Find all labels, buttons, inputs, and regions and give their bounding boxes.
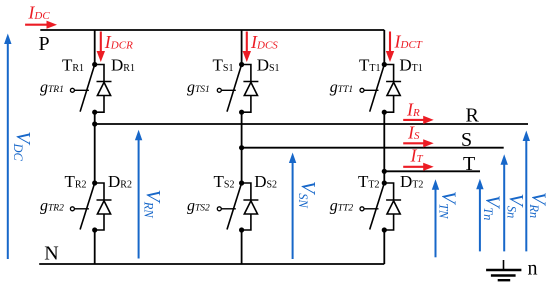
- wire leg R lower (pair to N rail): [94, 230, 96, 264]
- wire phase S rail: [242, 147, 504, 149]
- gate terminal gTS2 wire and circle: [217, 207, 236, 211]
- node dot bottom of pair T2: [382, 227, 387, 232]
- current arrow IT: [403, 163, 434, 171]
- switch TT1 blade: [370, 65, 385, 112]
- node dot bottom of pair T1: [382, 110, 387, 115]
- voltage arrow VSN: [289, 153, 296, 260]
- voltage arrow VTn: [476, 179, 483, 252]
- gate terminal gTT1 wire and circle: [360, 88, 379, 92]
- voltage arrow VRN: [135, 130, 142, 259]
- voltage arrow VRn: [523, 131, 530, 252]
- node dot bottom of pair S1: [239, 110, 244, 115]
- node dot bottom of pair S2: [239, 227, 244, 232]
- gate terminal gTR1 wire and circle: [70, 88, 89, 92]
- wire leg R middle (pair to pair via R rail): [94, 112, 96, 183]
- node dot bottom of pair R1: [92, 110, 97, 115]
- node dot top of pair S2: [239, 180, 244, 185]
- wire leg T upper (P rail to switch): [383, 30, 385, 65]
- switch TR1 blade: [80, 65, 95, 112]
- ground symbol (node n): [486, 260, 521, 280]
- switch TR2 blade: [80, 183, 95, 230]
- diode DT2: [384, 183, 401, 230]
- svg-text:R: R: [466, 105, 480, 127]
- node dot top of pair T2: [382, 180, 387, 185]
- current arrow IDCT: [386, 32, 394, 63]
- current arrow IS: [403, 139, 434, 147]
- wire leg T middle (pair to pair via T rail): [383, 112, 385, 183]
- current arrow IR: [403, 116, 434, 124]
- switch TT2 blade: [370, 183, 385, 230]
- switch TS1 blade: [227, 65, 242, 112]
- svg-text:S: S: [461, 129, 472, 151]
- voltage arrow VDC: [4, 34, 11, 260]
- node dot top of pair R1: [92, 62, 97, 67]
- wire leg S upper (P rail to switch): [241, 30, 243, 65]
- voltage arrow VTN: [432, 179, 439, 257]
- junction node dot leg T / T rail: [382, 169, 387, 174]
- switch TS2 blade: [227, 183, 242, 230]
- current arrow IDCR: [97, 32, 105, 63]
- voltage arrow VSn: [501, 154, 508, 251]
- gate terminal gTS1 wire and circle: [217, 88, 236, 92]
- svg-text:P: P: [39, 33, 50, 55]
- diode DR2: [95, 183, 112, 230]
- current arrow IDC: [25, 21, 57, 29]
- gate terminal gTT2 wire and circle: [360, 207, 379, 211]
- diode DT1: [384, 65, 401, 113]
- junction node dot leg S / S rail: [239, 145, 244, 150]
- svg-text:n: n: [528, 258, 538, 280]
- wire P rail (DC+ bus): [40, 29, 384, 31]
- current arrow IDCS: [243, 32, 251, 63]
- wire leg R upper (P rail to switch): [94, 30, 96, 65]
- svg-text:T: T: [463, 153, 475, 175]
- svg-text:N: N: [44, 242, 58, 264]
- diode DR1: [95, 65, 112, 113]
- node dot top of pair R2: [92, 180, 97, 185]
- diode DS1: [242, 65, 259, 113]
- wire phase T rail: [384, 170, 480, 172]
- gate terminal gTR2 wire and circle: [70, 207, 89, 211]
- node dot bottom of pair R2: [92, 227, 97, 232]
- wire leg S middle (pair to pair via S rail): [241, 112, 243, 183]
- wire N rail (DC- bus): [39, 263, 384, 265]
- diode DS2: [242, 183, 259, 230]
- wire leg T lower (pair to N rail): [383, 230, 385, 264]
- node dot top of pair T1: [382, 62, 387, 67]
- wire phase R rail: [95, 123, 528, 125]
- wire leg S lower (pair to N rail): [241, 230, 243, 264]
- node dot top of pair S1: [239, 62, 244, 67]
- junction node dot leg R / R rail: [92, 121, 97, 126]
